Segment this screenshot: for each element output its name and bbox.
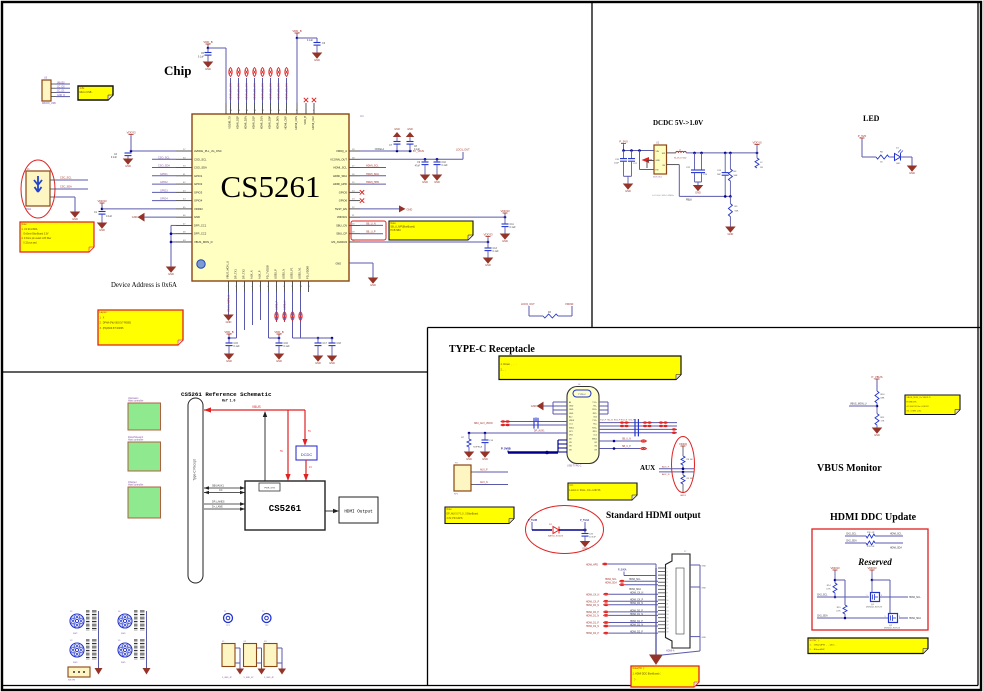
svg-text:GND: GND <box>695 191 701 195</box>
svg-text:SOT23-5: SOT23-5 <box>653 177 663 179</box>
svg-text:B1: B1 <box>595 442 597 444</box>
svg-text:PD_VDDIB: PD_VDDIB <box>306 266 310 279</box>
svg-text:NOFELA: NOFELA <box>473 446 482 449</box>
note below debug connector (red border) <box>20 222 94 252</box>
svg-text:1: 1 <box>867 595 868 597</box>
red box highlight around SBU pins <box>351 221 386 240</box>
svg-text:.: . <box>501 374 503 377</box>
svg-text:DP_AUX 0.7-1.0 , 5 BlueBoard: DP_AUX 0.7-1.0 , 5 BlueBoard <box>447 513 479 516</box>
note about SBU nets <box>389 221 473 240</box>
wire GPIO4 <box>152 198 176 201</box>
svg-text:VBUS_MON_U: VBUS_MON_U <box>228 295 231 312</box>
svg-text:USB2_N1: USB2_N1 <box>298 267 302 279</box>
title CS5261 Reference Schematic <box>181 391 272 403</box>
svg-text:USB2_P: USB2_P <box>276 300 279 310</box>
power flag P_5V0 DCDC input <box>619 140 628 151</box>
svg-text:DFP_CC1: DFP_CC1 <box>194 223 207 227</box>
svg-text:GPIO3: GPIO3 <box>160 189 168 192</box>
svg-text:HDMI_SDA: HDMI_SDA <box>890 546 902 549</box>
power flag VDD33 at VDD33 pin <box>97 199 106 210</box>
component X2 crystal footprint with gnd <box>244 641 266 679</box>
wire red DCDC out to CS5261 <box>303 460 312 481</box>
svg-text:Host controller: Host controller <box>128 484 144 487</box>
note DDC update instructions <box>808 638 928 654</box>
svg-text:HDMI_SDA: HDMI_SDA <box>629 588 641 591</box>
svg-text:HDMI_SCL: HDMI_SCL <box>629 579 641 581</box>
svg-text:GND: GND <box>569 413 574 415</box>
svg-text:GND: GND <box>434 180 440 184</box>
wire HDMI_SCL net <box>360 165 386 168</box>
svg-text:HDMI-A: HDMI-A <box>666 650 675 653</box>
wire CC1 line with pulldown node <box>468 430 567 435</box>
svg-text:SW1: SW1 <box>26 208 32 211</box>
svg-text:VBUS_MON_U: VBUS_MON_U <box>226 261 230 279</box>
svg-text:HDMI_D0_CH: HDMI_D0_CH <box>237 83 241 100</box>
svg-text:VCONN_OUT: VCONN_OUT <box>330 157 347 161</box>
wire LED cathode to gnd <box>901 157 913 166</box>
wire black arrow CS5261 to VBUS line <box>263 411 267 481</box>
U1 bottom pin stubs, numbers and names <box>226 261 311 292</box>
testpoint TP2 circle <box>262 611 271 627</box>
svg-text:B4: B4 <box>595 446 597 448</box>
J7 left pin stubs <box>658 568 668 634</box>
power flag VDD33 at I2S_AVDD33 <box>483 233 492 242</box>
wire VBUS red with left arrowhead <box>204 405 305 413</box>
svg-text:4.7K: 4.7K <box>836 611 841 613</box>
power flag VDD_B top middle with wire down to pin <box>292 29 301 103</box>
svg-text:2N7002_SOT23: 2N7002_SOT23 <box>866 607 883 609</box>
svg-text:VDD33: VDD33 <box>194 207 203 211</box>
wire USB2_N1 with diff marker to cap C18 <box>299 292 333 339</box>
capacitor C16 0.1uF bottom middle <box>276 338 291 354</box>
svg-text:11: 11 <box>667 603 669 605</box>
wire HDMI_D1_P row into J7 <box>586 621 658 625</box>
svg-text:HDMI_CK_N: HDMI_CK_N <box>630 593 644 595</box>
svg-text:U1: U1 <box>360 114 364 118</box>
svg-text:HDMI_D1_CH: HDMI_D1_CH <box>253 83 257 100</box>
svg-text:CSO_SCL: CSO_SCL <box>158 156 170 159</box>
wire HDMI_D1_N row into J7 <box>586 614 658 618</box>
svg-text:NOFELA: NOFELA <box>375 148 385 151</box>
svg-text:HDMI_D2_CH: HDMI_D2_CH <box>269 83 273 100</box>
svg-text:FBLK: FBLK <box>686 199 692 202</box>
svg-text:GND: GND <box>656 160 661 162</box>
svg-text:HDMI_D3_CH: HDMI_D3_CH <box>285 83 289 100</box>
svg-text:USB2_P1: USB2_P1 <box>290 267 294 279</box>
svg-text:10: 10 <box>667 600 669 602</box>
svg-text:GPIO1: GPIO1 <box>160 173 168 176</box>
svg-text:A12: A12 <box>569 415 572 418</box>
svg-text:R12 0R: R12 0R <box>867 532 875 534</box>
connector J6 USB Type-C receptacle capsule <box>567 384 599 468</box>
svg-text:P_5V0A: P_5V0A <box>618 569 627 572</box>
capacitor C23 output <box>698 153 708 182</box>
note under capsule <box>568 483 637 500</box>
wire AVDD pin to decoupling <box>130 150 176 153</box>
wire GPIO2 <box>152 181 176 184</box>
svg-text:HDMI_CKP: HDMI_CKP <box>284 116 288 130</box>
svg-text:1V: 1V <box>309 466 312 469</box>
svg-text:GND: GND <box>407 128 413 131</box>
svg-text:0.1uF: 0.1uF <box>198 55 205 58</box>
text Reserved <box>857 557 892 567</box>
wire I2S_AVDD33 to VDD33 flag and cap <box>360 241 489 244</box>
wire gnd drop for J2/J3 column <box>95 611 103 675</box>
wire arrow CS5261 to HDMI Output <box>325 509 339 513</box>
svg-text:AUX_N: AUX_N <box>250 270 254 279</box>
capacitor C15 0.1uF bottom left <box>226 338 241 354</box>
svg-text:CC_D0: CC_D0 <box>57 87 65 89</box>
green block Charger <box>128 481 161 518</box>
capacitor C11 0.1uF below VDD33 right <box>502 217 517 234</box>
svg-text:VBUS0: VBUS0 <box>57 82 65 84</box>
wire VCONN_OUT to LDO1_OUT <box>360 148 470 161</box>
wire PD_7VDDB to VDD cap <box>269 292 281 339</box>
svg-text:1. X: 1. X <box>100 317 105 319</box>
svg-text:GND: GND <box>874 433 880 437</box>
svg-text:8: 8 <box>667 593 668 595</box>
svg-text:0.1uF: 0.1uF <box>510 226 517 229</box>
svg-text:DP_LANES: DP_LANES <box>212 501 225 504</box>
svg-text:GND: GND <box>728 232 734 236</box>
svg-text:GPIO4: GPIO4 <box>194 199 203 203</box>
svg-text:HDMI_SCL: HDMI_SCL <box>909 597 921 599</box>
svg-text:DP_TX1: DP_TX1 <box>234 269 238 279</box>
svg-text:SBU/AUX1: SBU/AUX1 <box>212 485 224 488</box>
sheet divider: bottom border above page edge <box>3 685 978 687</box>
text AUX label <box>640 464 655 472</box>
connector footprint J2 with pin list <box>70 611 97 635</box>
wire bundle USB3 right of capsule with series caps and diff markers <box>599 419 677 436</box>
svg-text:0.1uF: 0.1uF <box>111 156 118 159</box>
svg-text:CC1: CC1 <box>569 424 573 426</box>
svg-text:0.1uF: 0.1uF <box>307 39 314 42</box>
note big bottom-left of chip sheet (red border) <box>98 310 183 345</box>
capacitor C4 0.1uF at AVDD pin <box>111 151 132 159</box>
svg-text:Note:: Note: <box>447 508 453 511</box>
svg-text:SBU_CP: SBU_CP <box>336 232 347 236</box>
wire thick VBUS P_5V0B to capsule <box>501 440 567 454</box>
svg-text:AUX: AUX <box>640 464 655 472</box>
wire U1 GND right bottom <box>335 263 373 279</box>
wire SBU_CP net <box>360 231 383 234</box>
svg-text:1. Down , , .: 1. Down , , . <box>501 362 517 366</box>
svg-text:GND: GND <box>315 361 321 365</box>
svg-text:CSC_SCL: CSC_SCL <box>60 177 72 180</box>
svg-text:HDMI_SCL: HDMI_SCL <box>605 579 617 581</box>
svg-text:13: 13 <box>667 610 669 612</box>
svg-text:CS5261 Reference Schematic: CS5261 Reference Schematic <box>181 391 272 398</box>
wire red branch into DCDC box <box>302 410 311 446</box>
svg-text:GPIO2: GPIO2 <box>194 182 203 186</box>
svg-text:Host controller: Host controller <box>128 400 144 403</box>
component Y1 small footprint box <box>68 667 90 682</box>
svg-text:VBUS Monitor: VBUS Monitor <box>817 463 882 474</box>
sheet divider: TYPE-C sheet left border <box>427 328 429 686</box>
section title LED <box>863 114 880 123</box>
svg-text:SL-H-CY102: SL-H-CY102 <box>674 157 687 159</box>
wire to LED anode <box>889 156 894 158</box>
svg-text:0.1uF: 0.1uF <box>442 164 449 167</box>
svg-text:2. DPHA (Pb) 0603 5/7 R0805: 2. DPHA (Pb) 0603 5/7 R0805 <box>100 322 132 325</box>
svg-text:2. : BStandFW, .: 2. : BStandFW, . <box>810 648 829 651</box>
svg-text:VDDQ_A: VDDQ_A <box>336 149 347 153</box>
svg-text:P_5V0: P_5V0 <box>858 134 867 138</box>
text Device Address <box>111 282 177 289</box>
capacitor C13 0.1uF at I2S rail <box>485 242 500 258</box>
wire HDMI_D0_P row into J7 <box>586 610 658 614</box>
CS5261 block <box>245 481 325 530</box>
svg-text:SB_U_P: SB_U_P <box>366 231 376 234</box>
svg-text:VDD33: VDD33 <box>867 566 876 570</box>
section title HDMI DDC Update <box>830 512 917 523</box>
svg-text:GPIO1: GPIO1 <box>194 174 203 178</box>
wire CH2_SCL jumper row <box>845 532 903 538</box>
power flag VDD33 DDC mid with gate wires <box>867 566 890 613</box>
svg-text:) .: ) . <box>633 678 638 681</box>
wire DFP_CC1/CC2/VBUS_MON_D tie-down bus <box>170 225 176 267</box>
svg-text:HDMI_D3_CH: HDMI_D3_CH <box>277 83 281 100</box>
svg-text:Type-C Recept: Type-C Recept <box>193 459 197 480</box>
capacitor C10 0.1uF on VCONN rail <box>434 159 449 175</box>
svg-text:VDD33: VDD33 <box>565 302 574 306</box>
wire HDMI_D2_P row into J7 <box>586 632 658 636</box>
svg-text:TYPE-C Receptacle: TYPE-C Receptacle <box>449 344 535 355</box>
svg-text:VIN: VIN <box>656 151 660 153</box>
svg-text:B12: B12 <box>594 416 597 418</box>
svg-text:HDMI_SCL: HDMI_SCL <box>366 165 379 168</box>
sheet divider: right border inside page edge <box>977 3 979 686</box>
svg-text:P_5V0A: P_5V0A <box>580 519 590 522</box>
svg-text:GND: GND <box>531 404 537 408</box>
ground arrow at U1 GND pin (left) <box>132 214 176 221</box>
svg-text:56P: 56P <box>717 174 721 176</box>
power flag VDD_B bottom middle <box>274 330 283 338</box>
svg-text:DP1: DP1 <box>569 431 573 433</box>
resistor R6 1K LED series <box>876 152 889 164</box>
svg-text:HDMI_D1_P: HDMI_D1_P <box>630 621 643 623</box>
svg-text:HDMI_D1_N: HDMI_D1_N <box>586 616 599 618</box>
svg-text:16: 16 <box>667 621 669 623</box>
DCDC block <box>296 446 317 460</box>
section title Chip <box>164 63 191 78</box>
ground output caps <box>694 182 702 195</box>
svg-text:Chip: Chip <box>164 63 191 78</box>
capacitor C14 NOFELA on CC1 node <box>473 433 494 452</box>
svg-text:Host controller: Host controller <box>128 439 144 442</box>
svg-text:47uF: 47uF <box>415 166 421 168</box>
svg-text:5V: 5V <box>308 430 311 433</box>
diode D2 P_5V0B to P_5V0A <box>528 519 590 538</box>
svg-text:CH2_SDA: CH2_SDA <box>817 615 828 618</box>
wire FB node <box>652 165 732 202</box>
red ellipse highlight around debug connector <box>21 160 55 218</box>
svg-text:P_5V0B: P_5V0B <box>501 447 511 451</box>
svg-text:1. HDMI DDC BlueBoard (: 1. HDMI DDC BlueBoard ( <box>633 673 661 676</box>
svg-text:R8 1M: R8 1M <box>687 459 693 461</box>
svg-text:HDMI_D1N: HDMI_D1N <box>260 116 264 129</box>
wire DP_LANES line capsule-CS5261 <box>204 501 245 506</box>
wire VDD33 branch to SDA pullup <box>835 580 845 605</box>
connector U3 micro header top-left <box>42 77 70 106</box>
svg-text:PCB SBU: PCB SBU <box>391 229 402 232</box>
connector capsule Type-C Receptacle symbol <box>188 398 203 583</box>
svg-text:HDMI_D2_N: HDMI_D2_N <box>586 626 599 628</box>
svg-text:DCDC 5V->1.0V: DCDC 5V->1.0V <box>653 119 703 127</box>
svg-text:HDMI_CK_N: HDMI_CK_N <box>586 594 600 596</box>
svg-text:P_VBUS: P_VBUS <box>871 375 882 379</box>
svg-text:9: 9 <box>667 596 668 598</box>
svg-text:68K: 68K <box>881 398 885 400</box>
no-connect GPIO5 <box>360 190 364 194</box>
svg-text:RX1-: RX1- <box>593 413 598 415</box>
wire HDMI_HPD row into J7 <box>586 563 656 568</box>
svg-text:L=2.2uH SW=1.4MHz: L=2.2uH SW=1.4MHz <box>652 195 674 197</box>
U1 top pin stubs, numbers and names <box>228 103 316 130</box>
svg-text:VDD10: VDD10 <box>752 141 761 145</box>
note TYPE-C usage (4 lines) <box>499 356 681 380</box>
resistor R11 17K divider bottom <box>875 414 885 428</box>
svg-text:SW: SW <box>662 153 665 155</box>
wire SBU2 right with red marker <box>599 439 646 443</box>
resistor R4 56K feedback top <box>728 153 738 197</box>
capacitor C17 bottom <box>315 338 328 356</box>
svg-text:AUX_P: AUX_P <box>480 469 488 472</box>
svg-text:DP_TX2: DP_TX2 <box>242 269 246 279</box>
svg-text:GND: GND <box>314 58 320 62</box>
svg-text:Layout :: Layout : <box>100 311 109 314</box>
svg-text:VDD_B: VDD_B <box>292 29 301 33</box>
no-connect X marks on two top pins <box>304 98 316 102</box>
svg-text:SBU_CN: SBU_CN <box>336 223 347 227</box>
resistor R14 4.7K on CH2_SCL <box>826 583 837 598</box>
resistor L2 bead below output <box>755 153 763 169</box>
svg-text:I2S_AVDD33: I2S_AVDD33 <box>331 240 347 244</box>
svg-text:LDO1_OUT: LDO1_OUT <box>456 148 470 152</box>
svg-text:DN1: DN1 <box>569 435 573 437</box>
svg-text:LED: LED <box>896 163 901 165</box>
svg-text:GND: GND <box>569 409 574 411</box>
svg-text:SW_PB: SW_PB <box>68 680 76 682</box>
wire CH2_SDA jumper row <box>845 540 903 550</box>
red box HDMI DDC update area <box>812 529 928 630</box>
svg-text:GND: GND <box>909 171 915 175</box>
svg-text:SB_U_N: SB_U_N <box>366 222 376 225</box>
svg-text:HDMI_HPD: HDMI_HPD <box>586 565 598 567</box>
capacitor C5 0.1uF at VDD_B <box>198 48 212 62</box>
sheet divider: reference schematic sheet top border <box>3 371 428 373</box>
svg-text:GND: GND <box>329 361 335 365</box>
power flag VDD33 right with cap C11 <box>500 209 509 217</box>
capacitor C22 output <box>686 153 698 182</box>
wire TX pins right of capsule <box>599 402 608 414</box>
component X1 crystal footprint with gnd <box>222 641 244 679</box>
svg-text:PD_7VDDB: PD_7VDDB <box>266 265 270 279</box>
power flag VDD33 DDC left <box>830 566 839 583</box>
HDMI Output block <box>339 497 378 523</box>
connector J7 HDMI-A body <box>666 551 691 653</box>
svg-text:B9: B9 <box>595 449 597 451</box>
svg-text:3: 3 <box>667 575 668 577</box>
svg-text:TEST_EN: TEST_EN <box>335 207 347 211</box>
svg-text:X_SMD_4P: X_SMD_4P <box>264 677 275 679</box>
svg-text:RX2-: RX2- <box>593 431 598 433</box>
power flag P_5V0 LED <box>858 134 867 157</box>
svg-text:GND: GND <box>72 217 78 221</box>
svg-text:HDMI_D0_N: HDMI_D0_N <box>586 605 599 607</box>
svg-text:GND: GND <box>132 215 138 219</box>
svg-text:GND: GND <box>702 566 707 568</box>
svg-text:2. 0.3mm pin avoid 1.8Χ filter: 2. 0.3mm pin avoid 1.8Χ filter <box>22 237 52 240</box>
svg-text:GND: GND <box>625 189 631 193</box>
capacitor C9 47uF on VCONN rail <box>415 159 429 175</box>
svg-text:CC_D1: CC_D1 <box>57 91 65 93</box>
svg-text:7: 7 <box>667 589 668 591</box>
svg-text:GND1: GND1 <box>680 495 687 497</box>
wire CC line capsule-CS5261 <box>204 489 245 494</box>
svg-text:GND: GND <box>422 180 428 184</box>
power flag VDD_B left top with wire to pin <box>203 40 226 114</box>
svg-text:3.3V, PD CAPS.: 3.3V, PD CAPS. <box>447 517 464 520</box>
svg-text:5: 5 <box>667 582 668 584</box>
svg-text:CSO_SDA: CSO_SDA <box>194 166 207 170</box>
svg-text:GND: GND <box>407 207 413 211</box>
wire gnd drop for J4/J5 column <box>143 611 151 675</box>
svg-text:SB_U_P: SB_U_P <box>622 446 631 448</box>
LED D1 diode <box>895 148 904 166</box>
svg-text:C17: C17 <box>323 342 328 345</box>
svg-text:Standard HDMI output: Standard HDMI output <box>606 511 701 521</box>
capacitor C7 NOFELA on VDDQ_A (gnd up) <box>375 128 401 151</box>
svg-text:A1: A1 <box>569 401 571 404</box>
svg-text:AUX_N: AUX_N <box>480 481 488 484</box>
wire SBU_CN net <box>360 222 383 225</box>
wire HDMI_CK_N row into J7 <box>586 593 658 597</box>
svg-text:USB-TYPE-C: USB-TYPE-C <box>567 465 582 468</box>
resistor R5 56K feedback bottom <box>728 196 739 227</box>
svg-text:HDMI_D0_P: HDMI_D0_P <box>586 612 599 614</box>
power flag VDD1V0 output <box>752 141 761 153</box>
note left mid sheet <box>445 507 514 524</box>
svg-text:HDMI_HPD: HDMI_HPD <box>333 182 347 186</box>
svg-text:18: 18 <box>667 628 669 630</box>
svg-text:1: 1 <box>667 568 668 570</box>
svg-text:5V, 0.98V 1.0V .: 5V, 0.98V 1.0V . <box>907 410 923 412</box>
wire HDMI_SDA net <box>360 173 386 176</box>
svg-text:0.1uF: 0.1uF <box>284 345 291 348</box>
svg-text:USB2_N: USB2_N <box>284 300 287 310</box>
svg-text:3: 3 <box>899 616 900 618</box>
svg-text:TX2_P TX2_N RX2_P RX2_N TX1_: TX2_P TX2_N RX2_P RX2_N TX1_P <box>600 420 635 422</box>
svg-text:1R: 1R <box>760 167 763 169</box>
svg-text:VBUS_MON_D: VBUS_MON_D <box>194 240 213 244</box>
svg-text:VDD_B: VDD_B <box>224 330 233 334</box>
svg-text:P_5V0: P_5V0 <box>619 140 628 144</box>
svg-text:GND: GND <box>394 128 400 131</box>
svg-text:2: 2 <box>667 571 668 573</box>
component X3 crystal footprint with gnd <box>264 641 286 679</box>
svg-text:CH2_SDA: CH2_SDA <box>846 540 857 543</box>
svg-text:GND: GND <box>569 405 574 407</box>
svg-text:DCDC: DCDC <box>301 452 313 457</box>
op-amp U1 CS5261 IC body <box>192 114 364 281</box>
wire GPIO3 <box>152 189 176 192</box>
wire GND pin of U2 <box>646 164 648 168</box>
wire red branch into CS5261 top <box>280 410 291 481</box>
capacitor C18 bottom <box>329 338 342 356</box>
svg-text:GPIO2: GPIO2 <box>160 181 168 184</box>
wire VDD33 pin <box>102 208 176 210</box>
